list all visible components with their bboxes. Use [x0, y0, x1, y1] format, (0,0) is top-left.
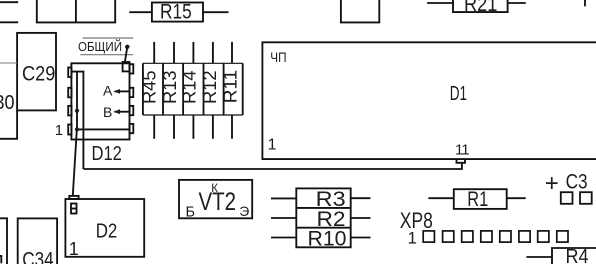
D12 right pin tabs: [130, 64, 134, 133]
small component box top-middle: [341, 0, 379, 22]
resistor R21: [453, 0, 508, 16]
svg-text:C29: C29: [22, 63, 55, 86]
IC D1 (extends off right edge): [262, 42, 596, 159]
svg-text:R13: R13: [160, 71, 180, 105]
svg-text:R11: R11: [220, 70, 240, 104]
resistor R1: [454, 188, 507, 211]
capacitor C3 pad 2: [580, 192, 592, 204]
pin 11 notch of D1: [457, 159, 466, 163]
resistor network block R45 R13 R14 R12 R11: [143, 63, 243, 115]
junction dot: [75, 127, 79, 131]
wire long horizontal bus to D1 pin 11: [83, 163, 462, 169]
wire right lead of R1: [507, 197, 526, 199]
wire left lead of R10: [271, 237, 296, 239]
svg-text:A: A: [103, 83, 113, 99]
svg-text:C34: C34: [22, 249, 54, 264]
wire stub top-right corner: [584, 0, 586, 6]
wire slanted from junction down to D2 pin: [73, 130, 77, 195]
svg-text:R12: R12: [200, 71, 220, 105]
svg-text:R4: R4: [566, 246, 589, 264]
resistor R15: [152, 0, 203, 23]
resistor block R3 R2 R10: [296, 188, 350, 250]
svg-text:R10: R10: [308, 228, 347, 251]
svg-text:Б: Б: [186, 205, 196, 221]
wire from D12 pin (tab1) right then down to long bus: [71, 72, 83, 169]
wire from C29 bottom-left down and left off-screen: [0, 110, 17, 138]
svg-text:ОБЩИЙ: ОБЩИЙ: [78, 39, 122, 54]
svg-text:1: 1: [461, 141, 469, 158]
wire right lead of R10: [351, 237, 371, 239]
svg-text:C3: C3: [566, 171, 588, 194]
resistor R4 (cut off at bottom-right): [552, 246, 596, 264]
svg-text:R14: R14: [180, 71, 200, 105]
IC D12: [71, 63, 129, 165]
wire left lead of R2: [271, 217, 296, 219]
wire (lead into C29 left, gray): [0, 62, 17, 64]
node dot ОБЩИЙ: [125, 45, 129, 49]
capacitor C3 label with polarity: [545, 170, 588, 197]
svg-text:1: 1: [55, 122, 63, 139]
wires bottom leads of resistor network: [154, 115, 232, 139]
wire right lead of R3: [351, 197, 371, 199]
svg-text:Э: Э: [239, 203, 249, 219]
wire right lead of R2: [351, 217, 371, 219]
IC D2: [65, 199, 144, 257]
wire left lead of R1: [428, 197, 454, 199]
svg-text:R21: R21: [464, 0, 497, 16]
wire (right lead of R15): [203, 11, 229, 13]
wire left lead of R4: [526, 256, 552, 258]
capacitor C3 pad 1: [561, 192, 573, 204]
pin label B with arrow: [103, 104, 130, 120]
svg-text:+: +: [545, 170, 559, 197]
two-cell component box top-left: [37, 0, 115, 22]
wires top leads of resistor network: [154, 42, 232, 63]
wire left lead of R3: [271, 197, 296, 199]
svg-text:D1: D1: [450, 83, 467, 105]
connector XP8 pads: [423, 231, 568, 242]
wire from ОБЩИЙ dot to D12 top pin: [125, 47, 128, 63]
svg-text:VT2: VT2: [199, 188, 237, 216]
wire (left lead of R21): [427, 2, 453, 4]
wire (right lead of R21): [508, 2, 526, 4]
component box (cut off at top-left edge): [0, 2, 18, 22]
svg-text:30: 30: [0, 92, 15, 114]
svg-text:1: 1: [408, 229, 417, 248]
D2 top pin tab: [69, 196, 78, 199]
capacitor C34: [18, 218, 57, 264]
component box (cut off at bottom-left edge): [0, 218, 7, 264]
wire from net to D12 right pin 4: [77, 128, 130, 130]
svg-text:ЧП: ЧП: [270, 49, 286, 65]
svg-text:R1: R1: [467, 188, 488, 211]
transistor VT2: [179, 180, 252, 221]
svg-text:D12: D12: [92, 143, 122, 165]
svg-text:1: 1: [268, 137, 277, 154]
junction dot: [75, 109, 79, 113]
svg-text:1: 1: [69, 239, 79, 259]
node ОБЩИЙ (common) label with overline and underline: [78, 38, 133, 55]
D12 top pin box (ОБЩИЙ pin): [123, 62, 130, 71]
wire (left lead of R15): [129, 11, 152, 13]
D12 left pin tabs: [68, 68, 71, 135]
svg-text:D2: D2: [96, 221, 118, 243]
svg-text:R15: R15: [160, 0, 192, 23]
capacitor C29: [17, 33, 56, 111]
svg-text:B: B: [103, 104, 112, 120]
D2 pin marker (two stacked squares): [71, 204, 77, 214]
pin label A with arrow: [103, 83, 130, 99]
svg-text:R45: R45: [140, 71, 160, 105]
wire vertical net inside D12: [76, 72, 78, 130]
label fragment bottom-left corner: [0, 256, 2, 264]
